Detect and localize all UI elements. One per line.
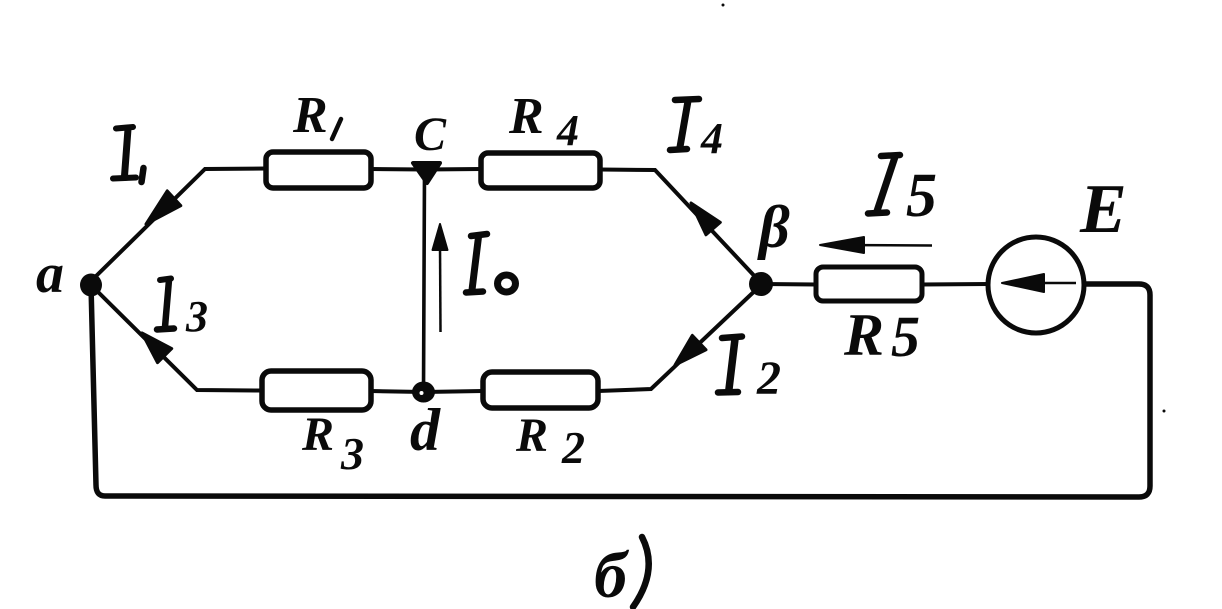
- wire bridge c-d vertical: [424, 170, 425, 392]
- resistor R2: [483, 372, 598, 408]
- wire a to R3 (diagonal down-right then horizontal): [89, 283, 261, 391]
- label R4: [508, 88, 579, 155]
- node c junction dot: [413, 163, 440, 183]
- svg-text:2: 2: [756, 352, 781, 405]
- label R2: [515, 409, 585, 473]
- svg-text:4: 4: [556, 106, 579, 155]
- wire E to right edge, down, along bottom, and up to node a: [91, 284, 1150, 497]
- node v junction dot: [749, 272, 773, 296]
- wire node c to R4: [425, 167, 481, 172]
- label I1: [113, 127, 144, 182]
- svg-text:б: б: [594, 539, 630, 609]
- wire node v to R5: [763, 282, 816, 287]
- svg-text:R: R: [843, 302, 884, 368]
- arrow I2 on wire v-R2: [675, 335, 706, 365]
- svg-text:3: 3: [185, 292, 208, 341]
- label R5: [843, 302, 920, 369]
- node d junction dot: [412, 382, 435, 403]
- svg-text:β: β: [757, 194, 790, 260]
- label I0: [466, 234, 516, 293]
- svg-text:d: d: [410, 397, 441, 463]
- svg-text:a: a: [36, 243, 64, 305]
- label I5: [868, 155, 937, 230]
- arrow I5 above R5: [820, 237, 932, 253]
- wire R3 to node d: [371, 391, 424, 392]
- label R3: [301, 408, 364, 479]
- speck: [1163, 410, 1166, 413]
- wire node d to R2: [424, 391, 483, 392]
- svg-text:R: R: [508, 88, 544, 145]
- wire a to R1 (diagonal up-right then horizontal): [89, 169, 266, 284]
- speck: [722, 4, 725, 7]
- arrow I3 on wire a-R3: [142, 333, 172, 363]
- label R1: [292, 87, 341, 144]
- wire R2 to node v (horizontal then diagonal up-right): [598, 285, 761, 391]
- arrow I1 on wire a-R1: [146, 191, 181, 224]
- svg-text:3: 3: [340, 428, 364, 479]
- source E circle: [988, 237, 1084, 333]
- caption b): [594, 537, 649, 609]
- wire R4 to node v (horizontal then diagonal down-right): [600, 170, 761, 284]
- svg-text:5: 5: [906, 162, 937, 230]
- svg-text:R: R: [301, 408, 334, 461]
- resistor R5: [816, 267, 922, 301]
- node a junction dot: [80, 274, 102, 297]
- resistor R4: [481, 153, 600, 188]
- svg-text:R: R: [515, 409, 548, 462]
- source E arrow: [1002, 274, 1076, 292]
- svg-text:4: 4: [700, 114, 723, 163]
- label I4: [670, 99, 723, 163]
- label I2: [718, 337, 781, 406]
- resistor R1: [266, 152, 371, 188]
- svg-text:E: E: [1079, 171, 1127, 248]
- svg-text:5: 5: [891, 304, 920, 369]
- svg-text:R: R: [292, 87, 328, 144]
- svg-text:2: 2: [561, 422, 585, 473]
- label I3: [157, 279, 208, 342]
- wire R5 to source E: [921, 282, 989, 287]
- arrow I0 beside bridge wire: [433, 224, 448, 332]
- wire R1 to node c: [371, 167, 425, 172]
- arrow I4 on wire R4-v: [691, 203, 720, 235]
- resistor R3: [262, 371, 371, 410]
- svg-text:C: C: [414, 108, 447, 161]
